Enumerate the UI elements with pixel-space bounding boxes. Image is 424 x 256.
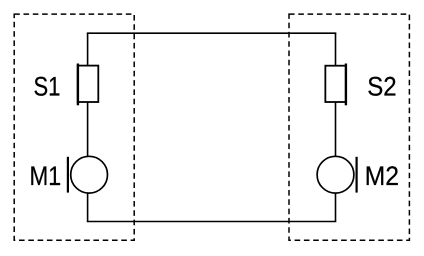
sensor S2 <box>325 64 346 106</box>
wire bottom <box>87 221 336 223</box>
wire top <box>87 32 336 34</box>
svg-text:S2: S2 <box>367 72 396 102</box>
motor M1 <box>68 156 108 193</box>
motor M2 <box>317 156 357 193</box>
dashed enclosure box right <box>289 14 409 240</box>
wire right vertical <box>335 33 337 221</box>
dashed enclosure box left <box>14 14 134 240</box>
svg-text:S1: S1 <box>33 71 60 101</box>
label M1 <box>30 161 61 191</box>
label S1 <box>33 71 60 101</box>
svg-text:M1: M1 <box>30 161 61 191</box>
wire left vertical <box>87 33 89 221</box>
sensor S1 <box>78 64 99 106</box>
svg-text:M2: M2 <box>365 161 399 191</box>
